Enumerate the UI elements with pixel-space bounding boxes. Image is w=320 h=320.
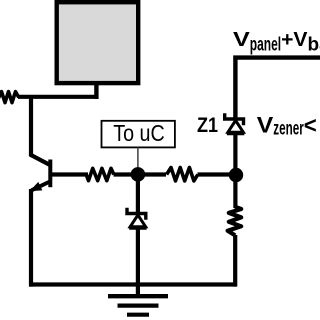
transistor Q1 xyxy=(30,155,88,191)
wire xyxy=(94,83,98,99)
wire xyxy=(18,95,99,99)
wire xyxy=(114,172,141,176)
svg-text:Z1: Z1 xyxy=(197,114,218,137)
resistor R4 xyxy=(228,207,242,236)
wire V+ rail xyxy=(235,58,320,118)
ground xyxy=(108,296,168,315)
wire xyxy=(136,172,140,213)
wire xyxy=(29,96,33,157)
wire xyxy=(29,189,33,287)
solar panel block xyxy=(57,2,139,83)
resistor R1 xyxy=(0,92,19,103)
wire xyxy=(137,148,139,173)
svg-text:To uC: To uC xyxy=(113,120,165,146)
wire xyxy=(198,172,237,176)
wire xyxy=(136,227,140,296)
resistor R2 xyxy=(86,168,114,180)
label To uC box xyxy=(102,121,175,148)
wire xyxy=(233,235,237,287)
wire xyxy=(29,282,236,286)
zener diode Z1 xyxy=(225,113,245,133)
node A xyxy=(131,167,146,182)
wire xyxy=(233,133,237,209)
resistor R3 xyxy=(167,168,198,181)
wire xyxy=(137,172,166,176)
node B xyxy=(229,168,243,182)
zener diode D1 xyxy=(127,208,147,228)
